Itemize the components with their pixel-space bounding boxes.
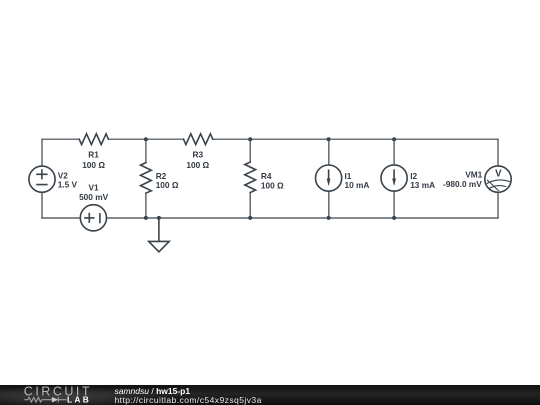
current source I1	[328, 139, 330, 165]
logo diode triangle	[52, 397, 58, 403]
CircuitLab logo	[0, 385, 110, 405]
svg-text:R3: R3	[192, 150, 203, 160]
wire bottom main	[107, 217, 499, 219]
svg-text:100 Ω: 100 Ω	[186, 160, 209, 170]
arrowhead I2	[392, 179, 396, 187]
junction dot bottom R2	[144, 216, 148, 220]
svg-text:LAB: LAB	[67, 395, 91, 405]
wire right upper	[497, 139, 499, 166]
wire top-left segment	[42, 138, 79, 140]
svg-text:13 mA: 13 mA	[410, 180, 435, 190]
junction dot top R4	[248, 137, 252, 141]
junction dot top I1	[327, 137, 331, 141]
logo resistor-diode symbol	[24, 397, 66, 403]
junction dot top I2	[392, 137, 396, 141]
wire bottom-left segment	[42, 217, 80, 219]
svg-text:1.5 V: 1.5 V	[58, 179, 78, 189]
svg-text:VM1: VM1	[465, 170, 482, 180]
resistor R3	[184, 134, 213, 145]
voltage source V2	[29, 166, 55, 192]
svg-text:-980.0 mV: -980.0 mV	[443, 179, 482, 189]
junction dot bottom R4	[248, 216, 252, 220]
arrowhead I1	[327, 179, 331, 187]
wire top-right segment	[213, 138, 498, 140]
voltage source V1	[80, 205, 106, 231]
svg-text:100 Ω: 100 Ω	[261, 181, 284, 191]
svg-text:V: V	[495, 169, 502, 180]
resistor R1	[79, 134, 108, 145]
voltmeter VM1	[485, 166, 511, 192]
footer title line	[115, 387, 191, 396]
junction dot bottom I1	[327, 216, 331, 220]
resistor R4	[249, 139, 251, 162]
svg-text:500 mV: 500 mV	[79, 192, 109, 202]
junction dot bottom I2	[392, 216, 396, 220]
resistor R2	[145, 139, 147, 162]
footer url line	[115, 396, 262, 405]
footer bar	[0, 385, 540, 405]
svg-text:R1: R1	[88, 150, 99, 160]
wire left lower	[41, 192, 43, 218]
wire right lower	[497, 192, 499, 218]
wire left upper	[41, 139, 43, 166]
svg-text:10 mA: 10 mA	[345, 180, 370, 190]
current source I2	[393, 139, 395, 165]
wire top between R1 and R3	[108, 138, 183, 140]
ground	[158, 218, 160, 241]
svg-text:100 Ω: 100 Ω	[82, 160, 105, 170]
junction dot top R2	[144, 137, 148, 141]
svg-text:100 Ω: 100 Ω	[156, 180, 179, 190]
junction dot ground	[157, 216, 161, 220]
